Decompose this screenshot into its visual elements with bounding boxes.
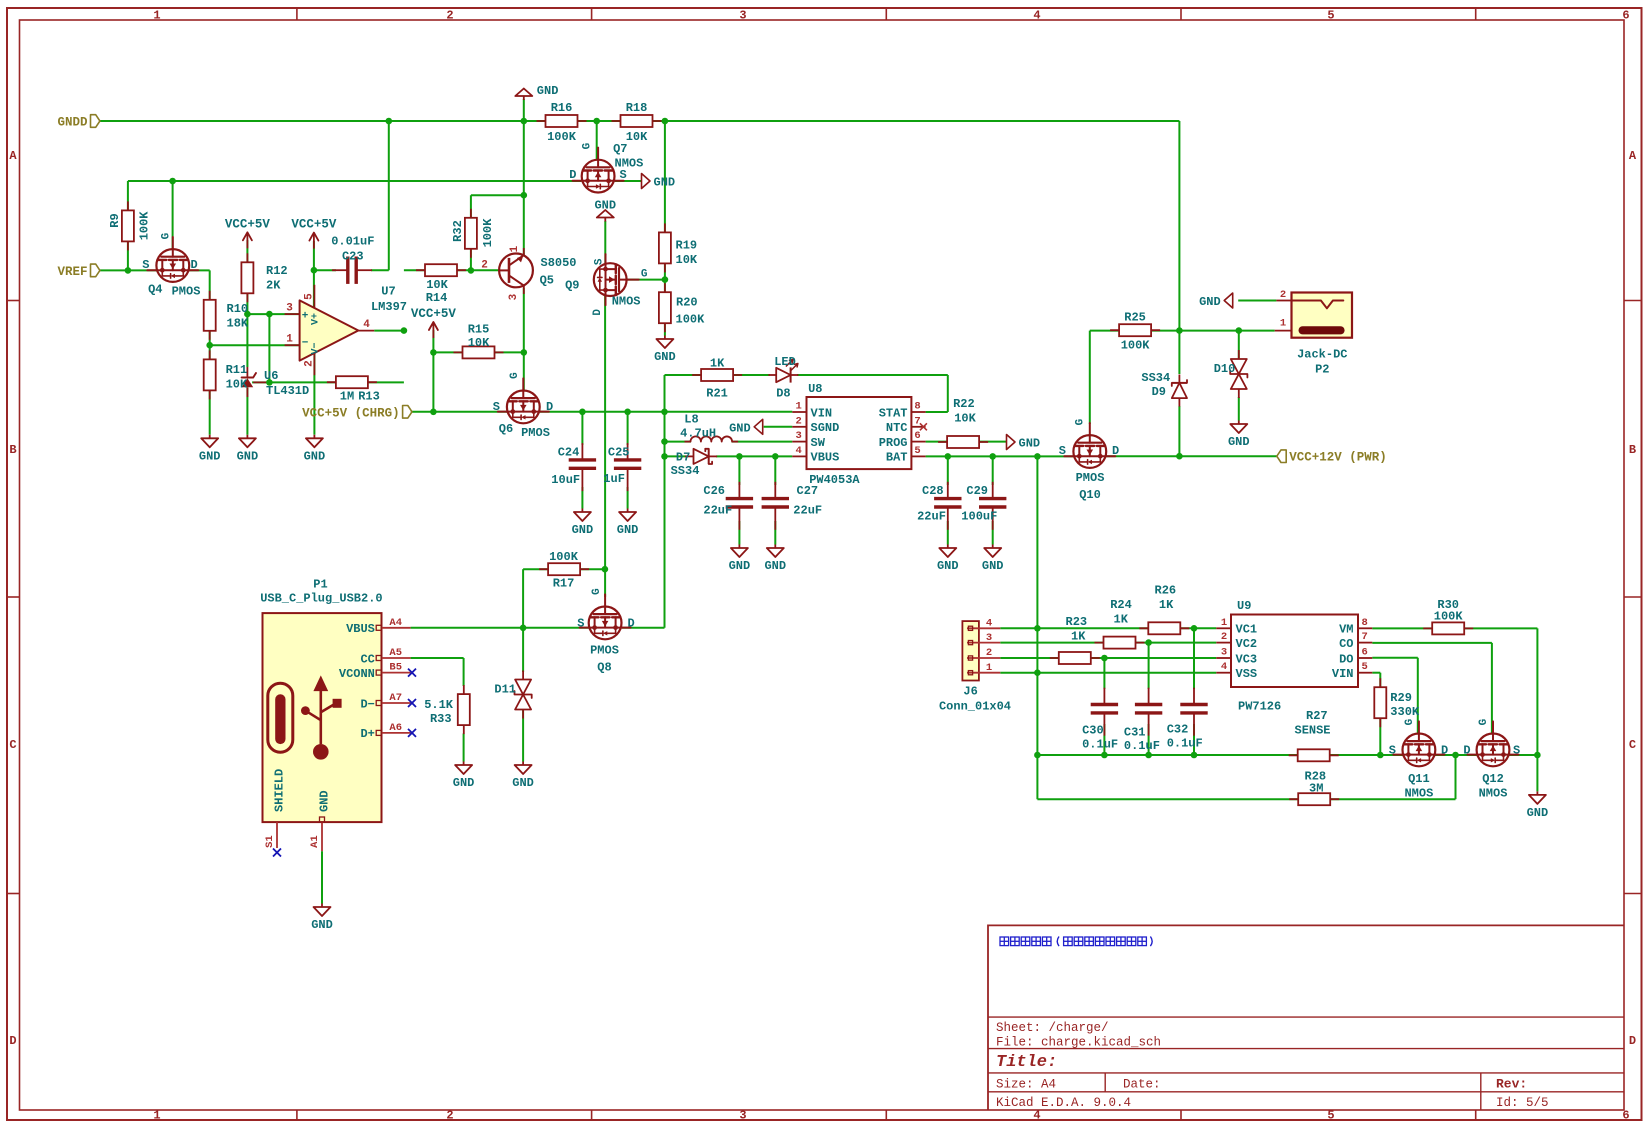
svg-text:D11: D11 <box>494 683 516 697</box>
svg-text:C26: C26 <box>703 484 725 498</box>
svg-text:U8: U8 <box>808 382 822 396</box>
svg-text:3: 3 <box>1221 647 1227 659</box>
svg-text:GND: GND <box>237 449 259 463</box>
svg-text:6: 6 <box>1622 9 1629 23</box>
svg-text:C29: C29 <box>966 484 988 498</box>
svg-text:R17: R17 <box>553 577 575 591</box>
svg-text:S1: S1 <box>264 835 276 848</box>
svg-text:LED: LED <box>774 355 796 369</box>
svg-text:VBUS: VBUS <box>811 451 840 465</box>
svg-text:5: 5 <box>1327 1109 1334 1123</box>
svg-text:GND: GND <box>1527 806 1549 820</box>
svg-text:1: 1 <box>153 1109 160 1123</box>
svg-text:330K: 330K <box>1390 705 1420 719</box>
svg-text:G: G <box>641 269 648 281</box>
svg-text:Q7: Q7 <box>613 142 627 156</box>
svg-text:Q5: Q5 <box>540 274 554 288</box>
svg-text:File: charge.kicad_sch: File: charge.kicad_sch <box>996 1036 1161 1050</box>
svg-text:Q8: Q8 <box>597 661 611 675</box>
svg-text:U6: U6 <box>264 369 278 383</box>
svg-text:R29: R29 <box>1390 691 1412 705</box>
svg-text:Q11: Q11 <box>1408 772 1430 786</box>
svg-text:USB_C_Plug_USB2.0: USB_C_Plug_USB2.0 <box>260 592 382 606</box>
svg-text:Rev:: Rev: <box>1496 1077 1527 1092</box>
svg-text:GND: GND <box>654 350 676 364</box>
svg-text:GND: GND <box>311 918 333 932</box>
svg-text:1: 1 <box>795 401 801 413</box>
svg-text:R21: R21 <box>706 387 728 401</box>
svg-text:22uF: 22uF <box>793 504 822 518</box>
svg-text:C30: C30 <box>1082 724 1104 738</box>
svg-text:D: D <box>1441 744 1448 758</box>
svg-text:GND: GND <box>729 559 751 573</box>
svg-text:4: 4 <box>986 618 992 630</box>
svg-text:1M: 1M <box>340 390 354 404</box>
svg-text:VIN: VIN <box>811 406 833 420</box>
svg-text:KiCad E.D.A. 9.0.4: KiCad E.D.A. 9.0.4 <box>996 1096 1131 1110</box>
svg-text:2: 2 <box>446 9 453 23</box>
svg-text:5: 5 <box>1327 9 1334 23</box>
svg-text:B5: B5 <box>389 662 402 674</box>
svg-text:S: S <box>1513 744 1520 758</box>
svg-text:Size: A4: Size: A4 <box>996 1078 1056 1092</box>
svg-text:5: 5 <box>304 293 316 300</box>
svg-text:D7: D7 <box>676 451 690 465</box>
svg-text:GND: GND <box>304 449 326 463</box>
svg-text:100K: 100K <box>549 550 579 564</box>
svg-text:10K: 10K <box>954 412 976 426</box>
svg-text:1: 1 <box>986 662 992 674</box>
svg-text:6: 6 <box>1362 647 1368 659</box>
svg-text:VCC+5V: VCC+5V <box>291 218 337 232</box>
svg-text:VCC+5V (CHRG): VCC+5V (CHRG) <box>302 406 400 420</box>
svg-text:S: S <box>620 168 627 182</box>
svg-text:C23: C23 <box>342 250 364 264</box>
svg-text:Title:: Title: <box>996 1053 1057 1072</box>
svg-text:S: S <box>142 258 149 272</box>
svg-text:U7: U7 <box>381 285 395 299</box>
svg-text:D+: D+ <box>360 727 374 741</box>
svg-text:7: 7 <box>914 415 920 427</box>
svg-text:1K: 1K <box>1071 630 1086 644</box>
svg-text:G: G <box>591 588 603 595</box>
svg-text:L8: L8 <box>684 413 698 427</box>
svg-text:SHIELD: SHIELD <box>273 769 287 812</box>
svg-text:R26: R26 <box>1155 584 1177 598</box>
svg-text:G: G <box>161 232 173 239</box>
svg-text:D: D <box>9 1034 16 1048</box>
svg-text:4: 4 <box>795 445 801 457</box>
svg-text:2K: 2K <box>266 279 281 293</box>
svg-text:3: 3 <box>739 1109 746 1123</box>
svg-text:0.01uF: 0.01uF <box>331 235 374 249</box>
svg-text:GND: GND <box>764 559 786 573</box>
svg-text:Id: 5/5: Id: 5/5 <box>1496 1096 1549 1110</box>
svg-text:SGND: SGND <box>811 421 840 435</box>
svg-text:GND: GND <box>572 523 594 537</box>
svg-text:R20: R20 <box>676 296 698 310</box>
svg-text:VCONN: VCONN <box>339 667 375 681</box>
svg-text:3: 3 <box>286 303 293 315</box>
svg-text:1: 1 <box>153 9 160 23</box>
svg-text:6: 6 <box>914 430 920 442</box>
svg-text:R23: R23 <box>1066 615 1088 629</box>
svg-text:PMOS: PMOS <box>172 284 201 298</box>
svg-text:D8: D8 <box>776 387 790 401</box>
svg-text:D: D <box>569 168 576 182</box>
svg-text:3: 3 <box>508 293 520 300</box>
svg-text:D: D <box>592 309 604 316</box>
svg-text:GND: GND <box>318 790 332 812</box>
svg-text:VC2: VC2 <box>1236 637 1258 651</box>
svg-text:SS34: SS34 <box>1141 371 1170 385</box>
svg-text:1: 1 <box>286 334 293 346</box>
svg-text:10K: 10K <box>426 278 448 292</box>
svg-text:Conn_01x04: Conn_01x04 <box>939 700 1011 714</box>
svg-text:STAT: STAT <box>879 406 908 420</box>
svg-text:GND: GND <box>654 176 676 190</box>
svg-text:1: 1 <box>509 245 521 252</box>
svg-text:NMOS: NMOS <box>612 295 641 309</box>
svg-text:D: D <box>546 400 553 414</box>
svg-text:VCC+5V: VCC+5V <box>411 307 457 321</box>
svg-text:C28: C28 <box>922 484 944 498</box>
svg-text:CO: CO <box>1339 637 1353 651</box>
svg-text:4: 4 <box>1221 661 1227 673</box>
svg-text:6: 6 <box>1622 1109 1629 1123</box>
svg-text:D: D <box>1463 744 1470 758</box>
svg-text:GND: GND <box>199 449 221 463</box>
svg-text:3: 3 <box>795 430 801 442</box>
svg-text:2: 2 <box>304 360 316 367</box>
svg-text:GND: GND <box>537 84 559 98</box>
svg-text:R18: R18 <box>626 101 648 115</box>
svg-text:B: B <box>1629 443 1636 457</box>
svg-text:VC1: VC1 <box>1236 623 1258 637</box>
svg-text:7: 7 <box>1362 631 1368 643</box>
svg-text:Q9: Q9 <box>565 279 579 293</box>
svg-text:R27: R27 <box>1306 709 1328 723</box>
svg-text:C: C <box>9 738 16 752</box>
svg-text:G: G <box>582 142 594 149</box>
svg-text:R33: R33 <box>430 712 452 726</box>
svg-text:10K: 10K <box>676 253 698 267</box>
svg-text:−: − <box>302 338 309 350</box>
svg-text:100K: 100K <box>676 313 706 327</box>
svg-text:SW: SW <box>811 436 826 450</box>
svg-text:VSS: VSS <box>1236 667 1258 681</box>
svg-text:C31: C31 <box>1124 726 1146 740</box>
svg-text:R9: R9 <box>108 213 122 227</box>
svg-text:VM: VM <box>1339 623 1353 637</box>
svg-text:2: 2 <box>1221 631 1227 643</box>
svg-text:R32: R32 <box>451 220 465 242</box>
svg-text:3: 3 <box>986 632 992 644</box>
svg-text:A5: A5 <box>389 647 402 659</box>
svg-text:2: 2 <box>481 260 488 272</box>
svg-text:R12: R12 <box>266 264 288 278</box>
svg-text:A7: A7 <box>389 692 402 704</box>
svg-text:Q4: Q4 <box>148 282 162 296</box>
svg-text:A: A <box>1629 149 1637 163</box>
svg-text:NMOS: NMOS <box>1479 787 1508 801</box>
svg-text:GND: GND <box>937 559 959 573</box>
svg-text:VC3: VC3 <box>1236 652 1258 666</box>
svg-text:R15: R15 <box>468 323 490 337</box>
svg-text:PMOS: PMOS <box>590 644 619 658</box>
svg-text:100K: 100K <box>547 130 577 144</box>
svg-text:D: D <box>1112 444 1119 458</box>
svg-text:100K: 100K <box>1434 610 1464 624</box>
svg-text:GND: GND <box>594 199 616 213</box>
svg-text:1K: 1K <box>1114 613 1129 627</box>
svg-text:VIN: VIN <box>1332 667 1354 681</box>
svg-text:R19: R19 <box>676 239 698 253</box>
svg-text:GND: GND <box>453 776 475 790</box>
svg-text:PMOS: PMOS <box>1076 471 1105 485</box>
svg-text:LM397: LM397 <box>371 300 407 314</box>
svg-text:100K: 100K <box>1121 339 1151 353</box>
svg-text:4.7uH: 4.7uH <box>680 427 716 441</box>
svg-text:5.1K: 5.1K <box>424 698 454 712</box>
svg-text:PMOS: PMOS <box>521 426 550 440</box>
svg-text:2: 2 <box>986 647 992 659</box>
svg-text:3: 3 <box>739 9 746 23</box>
svg-text:B: B <box>9 443 16 457</box>
svg-text:SS34: SS34 <box>671 464 700 478</box>
svg-text:GND: GND <box>1199 295 1221 309</box>
svg-text:10uF: 10uF <box>551 473 580 487</box>
svg-text:4: 4 <box>1033 9 1040 23</box>
svg-text:+: + <box>302 311 309 323</box>
svg-text:S8050: S8050 <box>541 256 577 270</box>
svg-text:G: G <box>1404 718 1416 725</box>
svg-text:GND: GND <box>982 559 1004 573</box>
svg-text:P2: P2 <box>1315 363 1329 377</box>
svg-text:U9: U9 <box>1237 599 1251 613</box>
svg-text:NTC: NTC <box>886 421 908 435</box>
svg-text:S: S <box>493 400 500 414</box>
svg-text:8: 8 <box>914 401 920 413</box>
svg-text:R24: R24 <box>1110 598 1132 612</box>
svg-text:BAT: BAT <box>886 451 908 465</box>
svg-text:S: S <box>1059 444 1066 458</box>
svg-text:VREF: VREF <box>57 265 87 279</box>
svg-text:GND: GND <box>617 523 639 537</box>
svg-text:TL431D: TL431D <box>266 384 309 398</box>
svg-text:D−: D− <box>360 697 374 711</box>
svg-text:A1: A1 <box>309 835 321 848</box>
svg-text:S: S <box>1389 744 1396 758</box>
svg-text:S: S <box>577 617 584 631</box>
svg-text:R25: R25 <box>1124 311 1146 325</box>
svg-text:Date:: Date: <box>1123 1078 1161 1092</box>
svg-text:2: 2 <box>446 1109 453 1123</box>
svg-text:R10: R10 <box>227 302 249 316</box>
svg-text:1K: 1K <box>710 357 725 371</box>
svg-text:1K: 1K <box>1159 598 1174 612</box>
svg-text:A6: A6 <box>389 722 402 734</box>
svg-text:PROG: PROG <box>879 436 908 450</box>
svg-text:D: D <box>628 617 635 631</box>
svg-text:VBUS: VBUS <box>346 622 375 636</box>
svg-text:C32: C32 <box>1167 723 1189 737</box>
svg-text:10K: 10K <box>226 378 248 392</box>
svg-text:0.1uF: 0.1uF <box>1124 739 1160 753</box>
svg-text:A4: A4 <box>389 617 402 629</box>
svg-text:2: 2 <box>795 415 801 427</box>
svg-text:R22: R22 <box>953 397 975 411</box>
svg-text:D10: D10 <box>1214 362 1236 376</box>
svg-text:D: D <box>1629 1034 1636 1048</box>
svg-text:1: 1 <box>1221 617 1227 629</box>
svg-text:R14: R14 <box>426 291 448 305</box>
svg-text:Q12: Q12 <box>1482 772 1504 786</box>
svg-text:Q10: Q10 <box>1079 488 1101 502</box>
svg-text:18K: 18K <box>227 317 249 331</box>
svg-text:GNDD: GNDD <box>57 116 88 130</box>
svg-text:G: G <box>1478 718 1490 725</box>
svg-text:R13: R13 <box>358 390 380 404</box>
svg-text:D: D <box>191 258 198 272</box>
svg-text:C24: C24 <box>558 446 580 460</box>
svg-text:1: 1 <box>1280 318 1286 330</box>
svg-text:CC: CC <box>360 652 374 666</box>
svg-text:GND: GND <box>1228 435 1250 449</box>
svg-text:S: S <box>594 258 606 265</box>
svg-text:SENSE: SENSE <box>1295 724 1331 738</box>
svg-text:R11: R11 <box>226 363 248 377</box>
svg-text:GND: GND <box>1019 437 1041 451</box>
svg-text:GND: GND <box>512 776 534 790</box>
svg-text:V+: V+ <box>311 313 322 325</box>
svg-text:NMOS: NMOS <box>1404 787 1433 801</box>
svg-text:22uF: 22uF <box>917 510 946 524</box>
svg-text:100K: 100K <box>481 218 495 248</box>
svg-text:4: 4 <box>1033 1109 1040 1123</box>
svg-text:10K: 10K <box>626 130 648 144</box>
svg-text:A: A <box>9 149 17 163</box>
svg-text:C27: C27 <box>797 484 819 498</box>
svg-text:Sheet: /charge/: Sheet: /charge/ <box>996 1021 1109 1035</box>
svg-text:22uF: 22uF <box>703 504 732 518</box>
svg-text:Q6: Q6 <box>499 422 513 436</box>
svg-text:GND: GND <box>729 421 751 435</box>
svg-text:Jack-DC: Jack-DC <box>1297 348 1347 362</box>
svg-text:10K: 10K <box>468 336 490 350</box>
svg-text:G: G <box>509 372 521 379</box>
svg-text:VCC+5V: VCC+5V <box>225 217 271 231</box>
svg-text:VCC+12V (PWR): VCC+12V (PWR) <box>1289 451 1387 465</box>
svg-text:V−: V− <box>311 342 322 354</box>
svg-text:5: 5 <box>1362 661 1368 673</box>
svg-text:D9: D9 <box>1152 385 1166 399</box>
svg-text:R16: R16 <box>551 101 573 115</box>
svg-text:P1: P1 <box>313 578 327 592</box>
svg-text:0.1uF: 0.1uF <box>1167 737 1203 751</box>
svg-text:G: G <box>1075 418 1087 425</box>
svg-text:100uF: 100uF <box>961 510 997 524</box>
svg-text:2: 2 <box>1280 289 1286 301</box>
svg-text:J6: J6 <box>963 685 977 699</box>
svg-text:5: 5 <box>914 445 920 457</box>
svg-text:PW7126: PW7126 <box>1238 700 1281 714</box>
svg-text:0.1uF: 0.1uF <box>1082 738 1118 752</box>
svg-text:8: 8 <box>1362 617 1368 629</box>
svg-text:C25: C25 <box>608 446 630 460</box>
svg-text:1uF: 1uF <box>603 472 625 486</box>
svg-text:100K: 100K <box>138 211 152 241</box>
svg-text:C: C <box>1629 738 1636 752</box>
svg-text:DO: DO <box>1339 652 1353 666</box>
svg-text:3M: 3M <box>1309 782 1323 796</box>
svg-text:4: 4 <box>363 319 370 331</box>
